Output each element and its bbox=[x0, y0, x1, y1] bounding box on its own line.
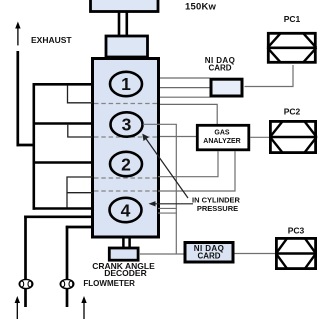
PC2 icon bbox=[269, 121, 317, 152]
exhaust manifold outer left edge bbox=[32, 83, 35, 210]
svg-text:2: 2 bbox=[121, 154, 131, 174]
svg-text:PC1: PC1 bbox=[284, 14, 301, 24]
cell1 port notch bbox=[68, 86, 93, 103]
crank angle decoder box bbox=[109, 248, 138, 260]
NI DAQ card 1 box bbox=[211, 79, 242, 96]
dashed line cyl2/4 upper bbox=[94, 177, 158, 179]
svg-text:150Kw: 150Kw bbox=[185, 1, 217, 12]
intake line 1 horizontal bbox=[24, 215, 92, 218]
intake arrow 2 bbox=[83, 301, 85, 320]
wire L3 engine to DAQ1 bbox=[160, 96, 210, 98]
manifold divider 1 bbox=[33, 122, 93, 125]
svg-text:EXHAUST: EXHAUST bbox=[31, 35, 72, 45]
svg-text:PRESSURE: PRESSURE bbox=[197, 204, 238, 213]
dynamometer box (top, cut off) bbox=[91, 0, 159, 12]
manifold divider 2 bbox=[33, 161, 93, 164]
cell3 port notch bbox=[67, 177, 93, 208]
wire cyl4 tap lower bbox=[158, 212, 177, 214]
svg-text:PC3: PC3 bbox=[288, 226, 305, 236]
shaft dyno-engine bbox=[118, 12, 121, 37]
svg-text:CARD: CARD bbox=[208, 64, 231, 73]
manifold bottom bbox=[33, 207, 93, 210]
exhaust pipe vertical bbox=[16, 51, 19, 146]
wire L2 engine to DAQ1 bbox=[160, 87, 210, 89]
exhaust pipe to manifold bbox=[17, 144, 34, 147]
gas analyzer box bbox=[197, 125, 249, 150]
svg-text:4: 4 bbox=[121, 200, 131, 220]
wire DAQ2 to PC3 bbox=[235, 253, 277, 255]
dashed line cyl2/4 lower bbox=[94, 190, 158, 192]
svg-text:PC2: PC2 bbox=[284, 106, 301, 116]
wire GA bottom to stub2 bbox=[158, 151, 235, 191]
flowmeter 2 bbox=[60, 279, 74, 288]
svg-text:3: 3 bbox=[122, 115, 132, 135]
engine block bbox=[93, 59, 159, 238]
cylinder 3 bbox=[111, 112, 143, 136]
wire GA to PC2 bbox=[250, 136, 270, 138]
flowmeter 1 bbox=[19, 279, 33, 288]
svg-text:1: 1 bbox=[121, 74, 131, 94]
wire cyl4 tap upper bbox=[158, 207, 177, 209]
dashed line cyl3/2 bbox=[94, 136, 158, 138]
svg-text:GAS: GAS bbox=[214, 129, 230, 136]
intake line 2 vertical bbox=[66, 226, 69, 307]
dashed line cyl1/3 bbox=[94, 103, 158, 105]
horizontal arrow to cyl 4 bbox=[153, 203, 193, 205]
cylinder 1 bbox=[110, 72, 142, 96]
NI DAQ card 2 box bbox=[185, 243, 233, 263]
intake line 2 horizontal bbox=[66, 226, 93, 229]
intake arrow 1 bbox=[16, 301, 18, 320]
svg-text:DECODER: DECODER bbox=[104, 268, 147, 278]
cell2 port notch bbox=[68, 125, 93, 137]
svg-text:CARD: CARD bbox=[197, 252, 220, 261]
intake line 1 vertical bbox=[24, 216, 27, 308]
cylinder 2 bbox=[110, 152, 142, 176]
wire cyl3 to bus bbox=[143, 124, 176, 254]
diagonal arrow to cyl 3 bbox=[146, 138, 189, 198]
svg-text:FLOWMETER: FLOWMETER bbox=[83, 279, 135, 288]
wire DAQ1 to PC1 bbox=[245, 65, 294, 87]
wire GA bottom to stub1 bbox=[158, 151, 218, 177]
wire L1 engine to DAQ1 bbox=[160, 77, 210, 79]
cylinder 4 bbox=[110, 198, 142, 222]
svg-text:ANALYZER: ANALYZER bbox=[203, 138, 240, 145]
decoder shaft bbox=[122, 237, 125, 247]
wire engine to gas analyzer bbox=[160, 136, 196, 138]
PC3 icon bbox=[275, 238, 317, 268]
wire decoder to DAQ2 bbox=[139, 253, 185, 255]
manifold top bbox=[33, 83, 93, 86]
coupling box bbox=[106, 36, 148, 57]
wire L4 engine to gas analyzer top bbox=[160, 104, 217, 124]
exhaust arrow bbox=[17, 26, 19, 45]
PC1 icon bbox=[267, 33, 317, 62]
